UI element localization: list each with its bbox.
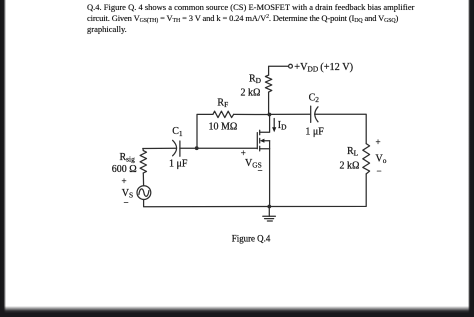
svg-text:ID: ID <box>278 120 287 132</box>
problem statement text <box>87 2 474 34</box>
node ground junction <box>267 205 271 209</box>
svg-text:+: + <box>241 148 246 158</box>
wire C1 to gate junction <box>180 147 197 149</box>
source VS circle <box>137 186 151 200</box>
resistor RD <box>265 75 271 92</box>
resistor RF <box>213 111 234 117</box>
svg-text:Rsig: Rsig <box>120 152 136 164</box>
arrow ID head <box>272 127 276 132</box>
svg-text:600 Ω: 600 Ω <box>112 164 137 175</box>
svg-text:RL: RL <box>347 146 359 158</box>
capacitor C1 <box>173 140 177 156</box>
resistor RL <box>363 144 370 174</box>
resistor Rsig <box>140 151 146 173</box>
wire Rsig to source VS <box>142 173 144 186</box>
photo frame left edge <box>0 0 6 317</box>
wire VS bottom to bottom rail <box>144 200 270 207</box>
svg-text:Vo: Vo <box>376 154 387 166</box>
wire C2 to right corner down <box>315 114 367 143</box>
svg-text:10 MΩ: 10 MΩ <box>209 122 238 133</box>
wire drain node to C2 <box>269 113 310 115</box>
svg-text:+VDD (+12 V): +VDD (+12 V) <box>294 62 353 74</box>
wire ground stub <box>268 207 270 217</box>
arrow ID <box>273 119 275 129</box>
transistor M1 body lead <box>263 140 269 142</box>
svg-text:RF: RF <box>217 98 228 110</box>
photo frame bottom band <box>0 306 474 317</box>
svg-text:Figure Q.4: Figure Q.4 <box>232 233 271 243</box>
ground symbol <box>263 215 276 217</box>
capacitor C2 <box>310 106 312 122</box>
svg-text:−: − <box>377 166 382 176</box>
svg-text:C1: C1 <box>172 126 183 138</box>
wire input top <box>143 147 176 149</box>
transistor M1 drain lead <box>260 115 270 133</box>
wire RD bottom to drain node <box>268 92 270 114</box>
svg-text:+: + <box>122 176 127 186</box>
svg-text:1 μF: 1 μF <box>169 159 188 170</box>
transistor M1 gate bar <box>256 133 258 149</box>
photo frame right edge <box>468 0 474 317</box>
wire Rsig top <box>142 149 144 151</box>
svg-text:1 μF: 1 μF <box>305 127 324 138</box>
wire RL bottom to bottom rail <box>269 174 366 207</box>
wire gate junction to gate bar <box>197 147 258 149</box>
transistor M1 body arrow head <box>260 139 265 143</box>
svg-text:2 kΩ: 2 kΩ <box>241 88 261 99</box>
node drain junction <box>268 113 272 117</box>
wire top rail left to RF <box>197 114 213 148</box>
wire source vertical to ground junction <box>269 141 271 207</box>
svg-text:2 kΩ: 2 kΩ <box>340 160 360 171</box>
wire VDD top horizontal <box>269 66 289 75</box>
transistor M1 channel segments <box>259 130 261 134</box>
svg-text:+: + <box>376 137 381 147</box>
svg-text:C2: C2 <box>309 92 320 104</box>
svg-text:RD: RD <box>249 74 262 86</box>
sine wave inside VS <box>139 189 149 197</box>
svg-text:−: − <box>258 166 263 176</box>
terminal VDD circle <box>289 64 293 68</box>
node gate junction <box>195 146 199 150</box>
transistor M1 source lead <box>260 148 270 150</box>
svg-text:−: − <box>124 198 129 208</box>
wire RF to drain node <box>234 113 270 115</box>
